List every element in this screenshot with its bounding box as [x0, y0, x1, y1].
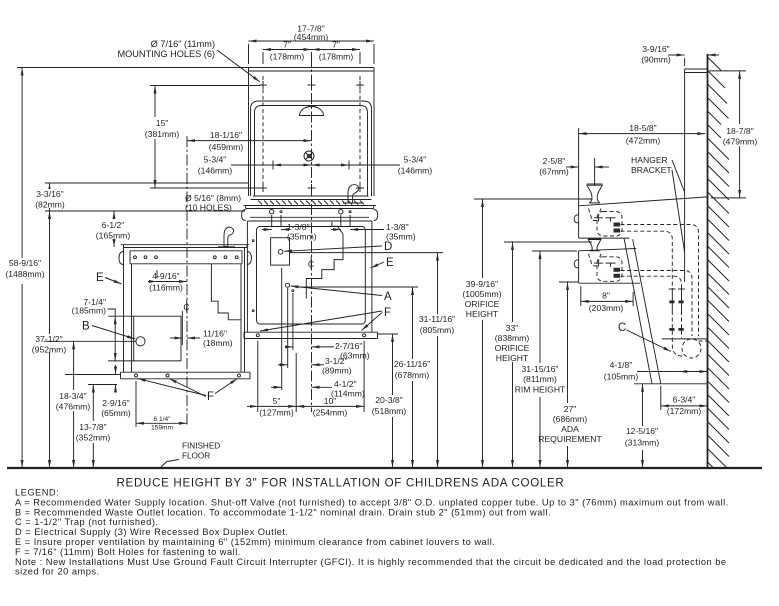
svg-text:C: C — [618, 322, 626, 334]
waste outlet B — [136, 337, 145, 346]
svg-text:26-11/16": 26-11/16" — [394, 359, 430, 369]
right unit inner panel — [257, 227, 366, 325]
centerline upper unit — [311, 56, 313, 412]
dimension 37-1/2 — [49, 211, 51, 334]
svg-text:10": 10" — [324, 396, 337, 406]
dimension 18-1/16 centerlines — [187, 140, 312, 142]
lower unit bubbler — [224, 227, 234, 246]
svg-text:(67mm): (67mm) — [539, 167, 569, 177]
dimension 6-1/4 — [135, 381, 137, 427]
svg-text:(254mm): (254mm) — [313, 408, 348, 418]
dimension 4-9/16 — [156, 270, 158, 278]
dimension 58-9/16 overall height — [21, 68, 23, 259]
mounting hole marks row2 — [259, 184, 364, 192]
dimension 18-7/8 — [709, 70, 746, 72]
dimension 2-5/8 — [594, 158, 596, 186]
svg-text:2-7/16": 2-7/16" — [335, 341, 362, 351]
svg-text:ORIFICE: ORIFICE — [465, 299, 500, 309]
wall line — [707, 54, 709, 468]
louver panel slants — [624, 238, 652, 384]
right unit bottom flange — [244, 331, 378, 333]
svg-text:(65mm): (65mm) — [101, 408, 131, 418]
svg-text:2-5/8": 2-5/8" — [543, 156, 566, 166]
bottom shelf — [634, 383, 708, 385]
dimension 18-5/8 — [578, 128, 580, 206]
svg-text:HEIGHT: HEIGHT — [466, 309, 499, 319]
dimension 12-5/16 — [642, 384, 644, 426]
svg-text:20-3/8": 20-3/8" — [375, 395, 402, 405]
svg-text:FLOOR: FLOOR — [182, 452, 210, 461]
svg-text:HEIGHT: HEIGHT — [496, 353, 529, 363]
svg-text:(35mm): (35mm) — [386, 232, 416, 242]
upper cooler shell inner — [255, 106, 368, 197]
svg-text:(203mm): (203mm) — [589, 303, 624, 313]
svg-text:4-1/2": 4-1/2" — [334, 379, 357, 389]
svg-text:ADA: ADA — [561, 424, 579, 434]
svg-text:6-3/4": 6-3/4" — [673, 395, 696, 405]
dimension 13-7/8 — [92, 385, 94, 422]
svg-text:3-9/16": 3-9/16" — [642, 44, 669, 54]
svg-text:1-3/8": 1-3/8" — [386, 222, 409, 232]
dimension 31-15/16 rim height — [532, 250, 577, 252]
upper cooler shell outer — [251, 101, 372, 196]
svg-text:5-3/4": 5-3/4" — [404, 155, 427, 165]
svg-text:REDUCE HEIGHT BY 3" FOR INSTAL: REDUCE HEIGHT BY 3" FOR INSTALLATION OF … — [117, 477, 565, 490]
svg-text:RIM HEIGHT: RIM HEIGHT — [515, 385, 566, 395]
dimension 33 orifice height — [504, 241, 592, 243]
extension 20-3/8 — [378, 333, 398, 335]
svg-text:B = Recommended Waste Outlet l: B = Recommended Waste Outlet location. T… — [15, 507, 551, 517]
dimension 6-3/4 — [660, 386, 662, 410]
dimension 31-11/16 — [437, 253, 439, 314]
svg-text:(838mm): (838mm) — [495, 333, 530, 343]
svg-text:B: B — [82, 321, 90, 333]
svg-text:1-3/8": 1-3/8" — [287, 222, 310, 232]
svg-text:(472mm): (472mm) — [626, 136, 661, 146]
svg-text:(1005mm): (1005mm) — [462, 289, 501, 299]
upper bubbler front — [300, 107, 324, 116]
upper bubbler side — [587, 185, 603, 203]
svg-text:LEGEND:: LEGEND: — [15, 488, 59, 498]
svg-text:F: F — [384, 307, 391, 319]
svg-text:(1488mm): (1488mm) — [5, 269, 44, 279]
svg-text:3-1/2": 3-1/2" — [325, 356, 348, 366]
svg-text:D = Electrical Supply (3) Wire: D = Electrical Supply (3) Wire Recessed … — [15, 527, 289, 537]
svg-text:Ø 7/16" (11mm): Ø 7/16" (11mm) — [151, 39, 215, 49]
svg-text:(116mm): (116mm) — [149, 283, 183, 293]
svg-text:58-9/16": 58-9/16" — [9, 258, 41, 268]
lower unit hidden plumbing — [621, 271, 693, 337]
supply stops at wall — [669, 288, 685, 338]
dimension 7 inch right — [312, 49, 361, 51]
svg-text:E: E — [386, 257, 394, 269]
svg-text:REQUIREMENT: REQUIREMENT — [538, 434, 602, 444]
dimension 3-1/2 — [287, 288, 289, 368]
lower bubbler side — [588, 240, 601, 251]
dimension 7 inch left — [262, 52, 264, 64]
svg-text:(172mm): (172mm) — [667, 406, 702, 416]
svg-text:(89mm): (89mm) — [322, 366, 352, 376]
extension waste outlet — [44, 340, 136, 342]
svg-text:39-9/16": 39-9/16" — [466, 279, 498, 289]
svg-text:(178mm): (178mm) — [270, 52, 305, 62]
svg-text:6 1/4": 6 1/4" — [153, 416, 171, 423]
dimension 26-11/16 — [412, 287, 414, 359]
hanger bracket — [684, 69, 686, 282]
lower unit apron bottom — [88, 384, 117, 386]
svg-text:HANGER: HANGER — [631, 155, 668, 165]
dimension 1-3/8 left — [271, 215, 273, 227]
upper basin — [253, 195, 369, 197]
dimension 5-3/4 left — [231, 164, 273, 166]
svg-text:(686mm): (686mm) — [553, 414, 588, 424]
right unit top flange — [244, 205, 377, 207]
extension 31-11/16 — [290, 252, 443, 254]
dimension 6-1/2 — [113, 211, 115, 219]
svg-text:31-15/16": 31-15/16" — [522, 364, 559, 374]
upper drain front — [304, 151, 314, 161]
svg-text:(127mm): (127mm) — [259, 408, 294, 418]
right unit cabinet sides — [246, 221, 248, 332]
svg-text:(454mm): (454mm) — [294, 32, 329, 42]
lower unit flange holes — [134, 256, 137, 259]
svg-text:A: A — [384, 291, 392, 303]
svg-text:27": 27" — [564, 404, 577, 414]
side hanger tabs right unit — [242, 210, 246, 221]
lower unit profile — [579, 249, 637, 251]
extension 26-11/16 — [295, 286, 418, 288]
dimension 20-3/8 — [392, 334, 394, 395]
lower unit fittings — [594, 262, 603, 264]
svg-text:(459mm): (459mm) — [209, 142, 244, 152]
dimension 27 ada requirement — [559, 281, 578, 283]
svg-text:11/16": 11/16" — [203, 329, 227, 339]
dimension 2-7/16 — [292, 293, 294, 350]
svg-text:Note : New Installations Must: Note : New Installations Must Use Ground… — [15, 557, 727, 567]
svg-text:18-1/16": 18-1/16" — [210, 130, 242, 140]
svg-text:8": 8" — [602, 291, 610, 301]
svg-text:5-3/4": 5-3/4" — [204, 155, 227, 165]
svg-text:7": 7" — [283, 40, 291, 50]
svg-text:(805mm): (805mm) — [420, 325, 455, 335]
centerline lower unit — [186, 136, 188, 427]
dimension 4-1/2 — [281, 268, 283, 390]
finished floor line — [7, 467, 762, 469]
svg-text:3-3/16": 3-3/16" — [36, 189, 63, 199]
svg-text:37-1/2": 37-1/2" — [35, 334, 62, 344]
extension line plate top to left — [17, 67, 249, 69]
dimension 39-9/16 orifice height — [474, 198, 592, 200]
svg-text:C = 1-1/2" Trap (not furnished: C = 1-1/2" Trap (not furnished). — [15, 517, 158, 527]
dimension 5 and 10 chain — [257, 341, 259, 412]
svg-text:(18mm): (18mm) — [203, 338, 233, 348]
svg-text:F = 7/16" (11mm) Bolt Holes fo: F = 7/16" (11mm) Bolt Holes for fastenin… — [15, 547, 241, 557]
dimension 4-1/8 — [637, 371, 679, 373]
svg-text:F: F — [207, 391, 214, 403]
dimension 15 inch hole rows — [150, 85, 260, 87]
svg-text:33": 33" — [506, 323, 519, 333]
svg-text:31-11/16": 31-11/16" — [419, 314, 455, 324]
svg-text:15": 15" — [156, 118, 169, 128]
svg-text:6-1/2": 6-1/2" — [102, 220, 125, 230]
svg-text:FINISHED: FINISHED — [182, 442, 220, 451]
svg-text:4-1/8": 4-1/8" — [610, 360, 633, 370]
svg-text:(90mm): (90mm) — [641, 55, 671, 65]
svg-text:(518mm): (518mm) — [372, 406, 407, 416]
svg-text:(185mm): (185mm) — [72, 306, 107, 316]
svg-text:E: E — [96, 272, 104, 284]
svg-text:E = Insure proper ventilation: E = Insure proper ventilation by maintai… — [15, 537, 495, 547]
hole A — [286, 283, 290, 287]
upper unit fittings — [594, 217, 603, 219]
svg-text:(381mm): (381mm) — [145, 129, 180, 139]
svg-text:(178mm): (178mm) — [319, 52, 354, 62]
lower unit cabinet sides — [123, 248, 125, 373]
svg-text:A = Recommended Water Supply l: A = Recommended Water Supply location. S… — [15, 497, 729, 507]
dimension 18-3/4 — [73, 341, 75, 390]
upper unit profile — [579, 197, 708, 206]
dimension 5-3/4 right — [349, 164, 400, 166]
svg-text:ORIFICE: ORIFICE — [495, 343, 530, 353]
svg-text:sized for 20 amps.: sized for 20 amps. — [15, 567, 100, 577]
lower unit basin rim — [121, 244, 249, 246]
svg-text:(352mm): (352mm) — [76, 433, 111, 443]
mounting plate — [249, 67, 375, 69]
svg-text:(811mm): (811mm) — [523, 374, 557, 384]
svg-text:13-7/8": 13-7/8" — [79, 422, 106, 432]
dimension 3-3/16 — [45, 182, 249, 184]
svg-text:MOUNTING HOLES (6): MOUNTING HOLES (6) — [118, 49, 216, 59]
svg-text:(165mm): (165mm) — [96, 231, 131, 241]
upper unit hidden plumbing — [621, 225, 699, 337]
svg-text:(105mm): (105mm) — [604, 372, 639, 382]
svg-text:(146mm): (146mm) — [198, 166, 233, 176]
svg-text:BRACKET: BRACKET — [631, 165, 672, 175]
interior partition stair lower unit — [211, 264, 241, 320]
svg-text:(82mm): (82mm) — [35, 200, 65, 210]
svg-text:18-7/8": 18-7/8" — [726, 126, 753, 136]
extension cabinet bottom left — [65, 374, 121, 376]
flange holes — [270, 210, 274, 214]
mounting hole columns dashed — [262, 76, 264, 192]
trap hidden — [682, 339, 701, 358]
shelf under trap — [662, 338, 708, 340]
svg-text:4-9/16": 4-9/16" — [152, 271, 179, 281]
dimension 8 inch — [580, 286, 582, 306]
electrical box D — [271, 238, 290, 265]
svg-text:(10 HOLES): (10 HOLES) — [185, 203, 232, 213]
dimension 1-3/8 right — [340, 215, 342, 227]
dimension 11/16 — [170, 337, 182, 339]
svg-text:(313mm): (313mm) — [625, 438, 660, 448]
wall hatching — [708, 57, 730, 468]
svg-text:(678mm): (678mm) — [395, 370, 430, 380]
dimension 17-7/8 plate width — [248, 44, 250, 64]
svg-text:2-9/16": 2-9/16" — [102, 398, 129, 408]
interior compartment box — [108, 315, 181, 317]
side hanger tabs lower unit — [119, 252, 124, 265]
right unit bubbler front — [348, 185, 359, 203]
svg-text:(35mm): (35mm) — [287, 232, 317, 242]
svg-text:159mm: 159mm — [151, 425, 173, 432]
svg-text:Ø 5/16" (8mm): Ø 5/16" (8mm) — [185, 193, 241, 203]
interior partition stair right unit — [306, 222, 343, 299]
svg-text:18-5/8": 18-5/8" — [629, 123, 656, 133]
svg-text:D: D — [384, 241, 392, 253]
svg-text:12-5/16": 12-5/16" — [626, 426, 658, 436]
svg-text:18-3/4": 18-3/4" — [59, 391, 86, 401]
dimension 3-9/16 — [668, 54, 685, 56]
svg-text:5": 5" — [273, 396, 281, 406]
svg-text:(952mm): (952mm) — [32, 345, 67, 355]
svg-text:(476mm): (476mm) — [56, 402, 91, 412]
mounting hole marks row1 — [259, 81, 364, 89]
svg-text:7": 7" — [332, 40, 340, 50]
lower unit bottom flange — [121, 371, 251, 373]
dimension 2-9/16 — [115, 365, 117, 375]
svg-text:(479mm): (479mm) — [723, 137, 758, 147]
svg-text:(146mm): (146mm) — [398, 166, 433, 176]
